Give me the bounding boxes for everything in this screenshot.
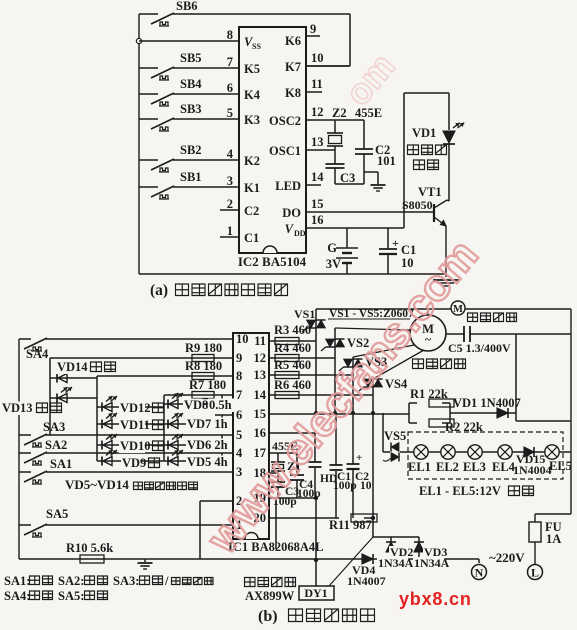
- svg-text:SB4: SB4: [180, 77, 202, 91]
- svg-text:K1: K1: [244, 181, 260, 195]
- svg-text:1: 1: [227, 224, 233, 238]
- svg-text:R3 460: R3 460: [274, 323, 311, 337]
- svg-text:/: /: [164, 574, 169, 588]
- svg-text:OSC2: OSC2: [269, 114, 301, 128]
- svg-text:R6 460: R6 460: [274, 378, 311, 392]
- svg-text:10: 10: [236, 332, 249, 346]
- svg-text:EL1: EL1: [408, 460, 431, 474]
- svg-text:7: 7: [236, 388, 242, 402]
- svg-text:SB6: SB6: [176, 0, 198, 13]
- svg-text:12: 12: [254, 351, 267, 365]
- svg-text:16: 16: [311, 213, 324, 227]
- svg-text:AX899W: AX899W: [245, 589, 295, 603]
- svg-text:1N34A: 1N34A: [414, 556, 450, 570]
- svg-text:VD14: VD14: [57, 360, 88, 374]
- svg-text:EL2: EL2: [436, 460, 459, 474]
- svg-text:SA2: SA2: [45, 438, 67, 452]
- svg-text:SA2:: SA2:: [58, 574, 84, 588]
- svg-text:VD11: VD11: [120, 418, 150, 432]
- svg-text:9: 9: [310, 22, 316, 36]
- svg-text:C5 1.3/400V: C5 1.3/400V: [448, 341, 511, 355]
- svg-text:VD6 2h: VD6 2h: [187, 438, 228, 452]
- svg-text:10: 10: [311, 51, 324, 65]
- svg-text:OSC1: OSC1: [269, 144, 301, 158]
- svg-text:SB3: SB3: [180, 102, 202, 116]
- svg-text:ybx8.cn: ybx8.cn: [399, 589, 472, 609]
- svg-text:N: N: [475, 566, 484, 580]
- svg-text:8: 8: [227, 28, 233, 42]
- svg-text:R5 460: R5 460: [274, 358, 311, 372]
- svg-text:(a): (a): [150, 282, 168, 299]
- svg-text:K8: K8: [285, 86, 301, 100]
- svg-text:VD13: VD13: [2, 401, 33, 415]
- svg-text:SA3: SA3: [43, 420, 65, 434]
- svg-text:VD5 4h: VD5 4h: [187, 455, 228, 469]
- svg-text:Z2: Z2: [332, 106, 347, 120]
- svg-text:2: 2: [227, 197, 233, 211]
- svg-text:4: 4: [236, 446, 243, 460]
- svg-text:14: 14: [254, 388, 267, 402]
- svg-text:11: 11: [254, 334, 266, 348]
- svg-text:SA1: SA1: [50, 457, 72, 471]
- svg-text:DD: DD: [294, 229, 306, 238]
- svg-text:3V: 3V: [326, 257, 341, 271]
- svg-text:SB2: SB2: [180, 143, 202, 157]
- svg-text:13: 13: [311, 135, 324, 149]
- svg-text:K3: K3: [244, 113, 260, 127]
- svg-text:VD12: VD12: [120, 401, 151, 415]
- svg-text:~220V: ~220V: [489, 550, 525, 565]
- svg-text:6: 6: [227, 81, 233, 95]
- svg-text:VD5~VD14: VD5~VD14: [65, 477, 129, 492]
- svg-text:C3: C3: [340, 171, 355, 185]
- svg-text:15: 15: [311, 197, 324, 211]
- svg-text:VS1: VS1: [294, 307, 315, 321]
- svg-text:5: 5: [227, 106, 233, 120]
- svg-text:VD1 1N4007: VD1 1N4007: [453, 396, 521, 410]
- svg-text:R8 180: R8 180: [185, 359, 222, 373]
- svg-text:8: 8: [236, 369, 242, 383]
- svg-text:C2: C2: [244, 204, 259, 218]
- svg-text:M: M: [453, 304, 463, 315]
- svg-text:VD9: VD9: [122, 456, 146, 470]
- svg-text:SA5: SA5: [46, 507, 68, 521]
- svg-text:VS5: VS5: [384, 429, 406, 443]
- svg-text:+: +: [392, 236, 399, 250]
- svg-text:DY1: DY1: [304, 586, 327, 600]
- svg-text:4: 4: [227, 147, 234, 161]
- svg-text:VD7 1h: VD7 1h: [187, 417, 228, 431]
- svg-text:13: 13: [254, 368, 267, 382]
- svg-text:1N34A: 1N34A: [378, 556, 414, 570]
- svg-text:1A: 1A: [546, 532, 561, 546]
- svg-text:IC2 BA5104: IC2 BA5104: [238, 254, 307, 269]
- svg-text:K6: K6: [285, 34, 301, 48]
- svg-text:+: +: [356, 452, 362, 464]
- svg-text:R9 180: R9 180: [185, 341, 222, 355]
- svg-text:12: 12: [311, 105, 324, 119]
- svg-text:5: 5: [236, 428, 242, 442]
- svg-text:K5: K5: [244, 62, 260, 76]
- svg-text:3: 3: [236, 465, 242, 479]
- svg-text:K4: K4: [244, 88, 261, 102]
- svg-text:3: 3: [227, 174, 233, 188]
- svg-text:9: 9: [236, 351, 242, 365]
- svg-text:1N4007: 1N4007: [347, 574, 386, 588]
- svg-text:SB1: SB1: [180, 170, 202, 184]
- svg-text:R7 180: R7 180: [189, 378, 226, 392]
- svg-text:1N4004: 1N4004: [513, 463, 552, 477]
- svg-text:(b): (b): [258, 608, 278, 625]
- svg-text:SA3:: SA3:: [113, 574, 139, 588]
- svg-text:EL5: EL5: [549, 459, 572, 473]
- svg-text:C1: C1: [244, 231, 259, 245]
- svg-text:EL1 - EL5:12V: EL1 - EL5:12V: [419, 484, 501, 498]
- svg-text:VD8: VD8: [184, 398, 208, 412]
- svg-text:VT1: VT1: [418, 185, 442, 199]
- svg-text:6: 6: [236, 408, 242, 422]
- svg-text:14: 14: [311, 170, 324, 184]
- svg-text:C1: C1: [401, 243, 416, 257]
- svg-text:K7: K7: [285, 60, 301, 74]
- svg-text:16: 16: [254, 426, 267, 440]
- svg-text:101: 101: [377, 154, 396, 168]
- svg-text:10: 10: [360, 480, 372, 492]
- svg-text:R1 22k: R1 22k: [410, 387, 448, 401]
- svg-text:DO: DO: [282, 206, 301, 220]
- svg-text:G: G: [327, 241, 337, 255]
- svg-text:100p: 100p: [333, 480, 357, 492]
- svg-text:R10 5.6k: R10 5.6k: [66, 541, 113, 555]
- svg-text:R4 460: R4 460: [274, 341, 311, 355]
- svg-text:11: 11: [311, 77, 323, 91]
- svg-text:SB5: SB5: [180, 51, 202, 65]
- svg-text:S8050: S8050: [402, 198, 433, 212]
- svg-text:7: 7: [227, 55, 233, 69]
- svg-text:10: 10: [401, 256, 414, 270]
- svg-text:LED: LED: [275, 179, 301, 193]
- svg-text:L: L: [531, 566, 539, 580]
- svg-text:0.5h: 0.5h: [209, 398, 232, 412]
- svg-text:SA4:: SA4:: [4, 589, 30, 603]
- svg-text:SA1:: SA1:: [4, 574, 30, 588]
- svg-text:15: 15: [254, 407, 267, 421]
- svg-text:SS: SS: [252, 42, 261, 51]
- svg-text:VD1: VD1: [412, 126, 436, 140]
- svg-text:SA5:: SA5:: [58, 589, 84, 603]
- svg-text:K2: K2: [244, 154, 260, 168]
- svg-text:R11 987: R11 987: [329, 518, 372, 532]
- svg-text:SA4: SA4: [26, 347, 49, 361]
- svg-text:EL3: EL3: [463, 460, 486, 474]
- svg-text:VD10: VD10: [120, 439, 151, 453]
